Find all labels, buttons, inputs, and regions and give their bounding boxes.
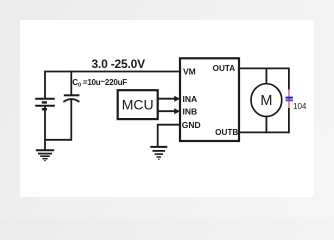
card: [20, 20, 314, 197]
svg-text:3.0 -25.0V: 3.0 -25.0V: [92, 57, 146, 71]
MCU U2 box: [118, 90, 158, 119]
wire bypass cap bottom lead (black): [288, 108, 290, 133]
bypass capacitor 104 plates: [286, 97, 293, 102]
svg-text:INB: INB: [183, 106, 198, 116]
wire motor top lead: [265, 68, 267, 85]
motor M1: [251, 84, 282, 117]
driver IC U1 box: [180, 58, 239, 141]
wire motor bottom lead: [265, 116, 267, 133]
svg-text:104: 104: [293, 102, 307, 111]
wire capacitor C0 top lead: [70, 71, 72, 95]
wire capacitor C0 bottom lead: [70, 99, 72, 141]
svg-text:MCU: MCU: [122, 96, 154, 112]
battery BT1: [35, 99, 55, 109]
wire bypass cap top lead (black): [288, 68, 290, 90]
svg-text:M: M: [260, 93, 272, 109]
svg-text:OUTA: OUTA: [213, 64, 236, 73]
ground (battery): [36, 150, 54, 160]
wire OUTB to motor rail: [239, 131, 289, 133]
wire battery top lead: [44, 71, 46, 99]
wire INA with arrow: [158, 96, 181, 102]
wire GND net from IC to ground: [158, 125, 180, 147]
svg-text:C0 =10u~220uF: C0 =10u~220uF: [72, 77, 127, 89]
svg-text:INA: INA: [183, 94, 198, 104]
svg-text:VM: VM: [183, 66, 196, 76]
svg-text:OUTB: OUTB: [215, 128, 238, 137]
capacitor C0: [63, 95, 79, 102]
wire INB with arrow: [158, 108, 181, 114]
ground (IC GND): [150, 147, 167, 159]
svg-text:GND: GND: [182, 120, 201, 130]
wire battery bottom lead: [44, 106, 46, 149]
wire OUTA to motor rail: [239, 67, 289, 69]
bypass capacitor 104 (red leads): [288, 89, 290, 108]
wire top supply rail: [45, 71, 180, 73]
wire battery-capacitor bottom join: [44, 139, 71, 141]
